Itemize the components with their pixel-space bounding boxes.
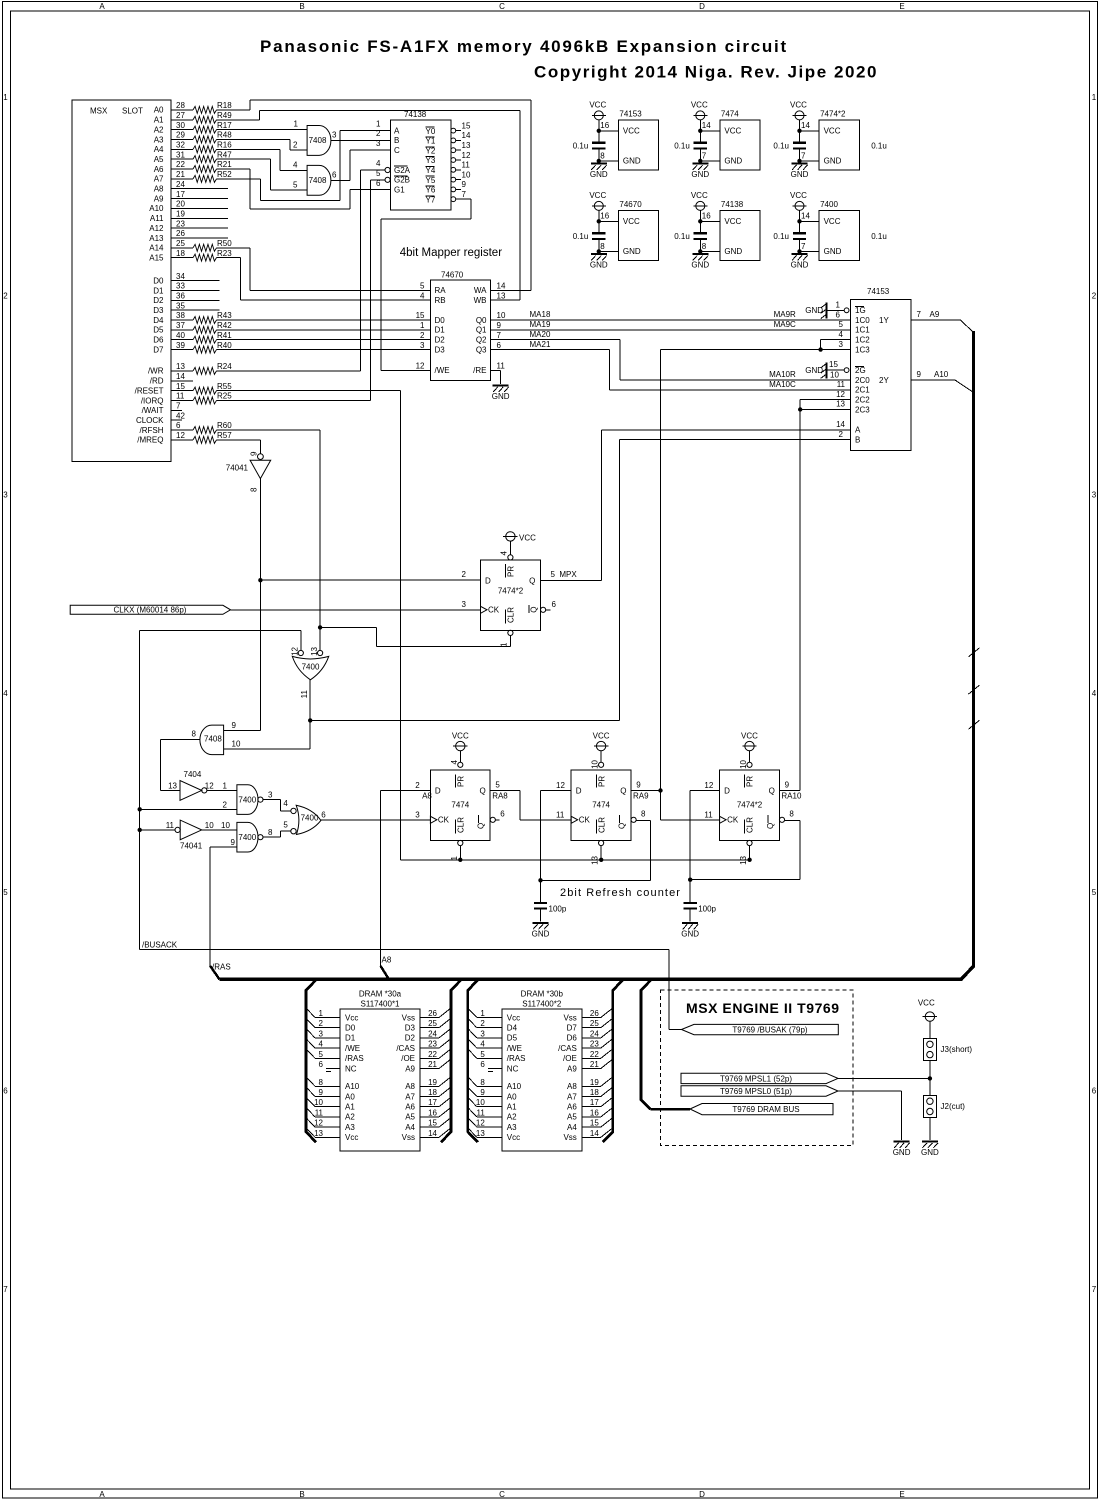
svg-text:CLOCK: CLOCK (136, 416, 164, 425)
svg-text:RA: RA (435, 286, 447, 295)
svg-text:6: 6 (497, 341, 502, 350)
svg-text:7408: 7408 (309, 176, 327, 185)
svg-text:GND: GND (691, 260, 709, 269)
svg-text:GND: GND (590, 170, 608, 179)
svg-text:Q: Q (530, 607, 539, 613)
svg-text:15: 15 (428, 1119, 437, 1128)
svg-text:VCC: VCC (593, 731, 610, 740)
svg-text:1: 1 (420, 321, 425, 330)
svg-text:VCC: VCC (589, 101, 606, 110)
svg-text:4: 4 (500, 550, 509, 555)
svg-text:Copyright 2014 Niga. Rev. Jipe: Copyright 2014 Niga. Rev. Jipe 2020 (534, 63, 878, 82)
svg-text:5: 5 (480, 1050, 485, 1059)
svg-text:D7: D7 (153, 345, 164, 354)
svg-text:8: 8 (319, 1078, 324, 1087)
svg-text:CLR: CLR (597, 817, 606, 833)
svg-text:15: 15 (829, 360, 838, 369)
svg-text:3: 3 (3, 490, 8, 499)
svg-text:74041: 74041 (226, 463, 249, 472)
svg-text:PR: PR (507, 566, 516, 577)
svg-text:6: 6 (552, 600, 557, 609)
svg-text:CLR: CLR (457, 817, 466, 833)
svg-text:R17: R17 (217, 121, 232, 130)
svg-text:2C1: 2C1 (855, 386, 870, 395)
svg-text:10: 10 (314, 1098, 323, 1107)
svg-text:13: 13 (836, 400, 845, 409)
svg-text:A: A (99, 2, 105, 11)
svg-text:Y1: Y1 (426, 137, 436, 146)
svg-text:CK: CK (438, 816, 450, 825)
svg-text:8: 8 (250, 487, 259, 492)
svg-text:3: 3 (376, 139, 381, 148)
svg-text:18: 18 (176, 249, 185, 258)
svg-text:R25: R25 (217, 392, 232, 401)
svg-text:24: 24 (590, 1029, 599, 1038)
svg-text:14: 14 (801, 212, 810, 221)
svg-text:B: B (299, 2, 304, 11)
svg-text:17: 17 (428, 1098, 437, 1107)
svg-text:A1: A1 (507, 1103, 517, 1112)
svg-text:0.1u: 0.1u (674, 142, 690, 151)
svg-text:D5: D5 (507, 1034, 518, 1043)
svg-text:R41: R41 (217, 331, 232, 340)
svg-text:MA21: MA21 (530, 340, 551, 349)
svg-text:16: 16 (600, 212, 609, 221)
svg-text:MA20: MA20 (530, 330, 551, 339)
svg-text:VCC: VCC (691, 101, 708, 110)
svg-text:13: 13 (314, 1129, 323, 1138)
svg-text:/OE: /OE (563, 1054, 577, 1063)
svg-text:Q: Q (769, 786, 775, 795)
svg-text:8: 8 (268, 828, 273, 837)
svg-text:0.1u: 0.1u (573, 142, 589, 151)
svg-text:GND: GND (824, 157, 842, 166)
svg-text:/WE: /WE (507, 1044, 522, 1053)
svg-text:A0: A0 (507, 1092, 517, 1101)
svg-text:3: 3 (839, 340, 844, 349)
svg-text:26: 26 (428, 1009, 437, 1018)
svg-text:Q2: Q2 (476, 336, 487, 345)
svg-text:Y4: Y4 (426, 166, 436, 175)
svg-text:A7: A7 (405, 1092, 415, 1101)
svg-text:8: 8 (600, 242, 605, 251)
svg-text:/IORQ: /IORQ (141, 396, 164, 405)
svg-text:9: 9 (250, 451, 259, 456)
svg-text:24: 24 (176, 180, 185, 189)
svg-text:A10: A10 (149, 204, 164, 213)
svg-text:11: 11 (300, 689, 309, 698)
svg-text:11: 11 (176, 392, 185, 401)
svg-text:6: 6 (480, 1060, 485, 1069)
svg-text:36: 36 (176, 292, 185, 301)
svg-text:D6: D6 (567, 1034, 578, 1043)
svg-text:17: 17 (590, 1098, 599, 1107)
svg-text:Y3: Y3 (426, 156, 436, 165)
svg-text:4: 4 (450, 759, 459, 764)
svg-text:E: E (899, 1490, 904, 1499)
svg-text:7: 7 (1092, 1285, 1097, 1294)
svg-text:4: 4 (839, 330, 844, 339)
svg-text:5: 5 (551, 570, 556, 579)
svg-text:A2: A2 (154, 125, 164, 134)
svg-text:19: 19 (428, 1078, 437, 1087)
svg-text:9: 9 (462, 180, 467, 189)
svg-text:D5: D5 (153, 326, 164, 335)
svg-text:19: 19 (590, 1078, 599, 1087)
svg-text:7: 7 (702, 151, 707, 160)
svg-text:G2A: G2A (394, 166, 411, 175)
svg-text:5: 5 (420, 282, 425, 291)
svg-text:D: D (435, 786, 441, 795)
svg-text:D0: D0 (345, 1024, 356, 1033)
svg-text:MSX ENGINE II T9769: MSX ENGINE II T9769 (686, 1000, 840, 1016)
svg-text:25: 25 (176, 239, 185, 248)
svg-text:S117400*2: S117400*2 (522, 1000, 562, 1009)
svg-text:13: 13 (176, 362, 185, 371)
svg-text:D3: D3 (435, 345, 446, 354)
svg-text:R18: R18 (217, 101, 232, 110)
svg-text:7474: 7474 (592, 800, 610, 809)
svg-text:14: 14 (590, 1129, 599, 1138)
svg-text:2C2: 2C2 (855, 396, 870, 405)
svg-text:A11: A11 (150, 214, 164, 223)
svg-text:20: 20 (176, 200, 185, 209)
svg-text:1Y: 1Y (879, 316, 889, 325)
svg-text:3: 3 (268, 790, 273, 799)
svg-text:1C1: 1C1 (855, 326, 870, 335)
svg-text:12: 12 (836, 390, 845, 399)
svg-text:B: B (299, 1490, 304, 1499)
svg-text:GND: GND (805, 306, 823, 315)
svg-text:/RE: /RE (473, 366, 486, 375)
svg-text:D4: D4 (153, 316, 164, 325)
svg-text:9: 9 (232, 721, 237, 730)
svg-text:13: 13 (476, 1129, 485, 1138)
svg-text:8: 8 (702, 242, 707, 251)
svg-text:CK: CK (488, 606, 500, 615)
svg-text:23: 23 (176, 219, 185, 228)
svg-text:A15: A15 (149, 253, 164, 262)
svg-text:/RAS: /RAS (212, 963, 231, 972)
svg-text:24: 24 (428, 1029, 437, 1038)
svg-text:12: 12 (176, 431, 185, 440)
svg-text:VCC: VCC (452, 731, 469, 740)
svg-text:74041: 74041 (180, 842, 203, 851)
svg-text:D2: D2 (153, 296, 164, 305)
svg-text:12: 12 (704, 781, 713, 790)
svg-text:2: 2 (462, 570, 467, 579)
svg-text:A7: A7 (567, 1092, 577, 1101)
svg-text:7474*2: 7474*2 (737, 800, 763, 809)
svg-text:MA9C: MA9C (774, 320, 796, 329)
svg-text:6: 6 (1092, 1087, 1097, 1096)
svg-text:7: 7 (3, 1285, 8, 1294)
svg-text:3: 3 (332, 130, 337, 139)
svg-text:9: 9 (917, 370, 922, 379)
svg-text:T9769 MPSL1 (52p): T9769 MPSL1 (52p) (720, 1074, 792, 1083)
svg-text:MA18: MA18 (530, 310, 551, 319)
svg-text:8: 8 (192, 730, 197, 739)
svg-text:A10: A10 (345, 1082, 360, 1091)
svg-text:/RAS: /RAS (507, 1054, 526, 1063)
svg-text:2C3: 2C3 (855, 405, 870, 414)
svg-text:/CAS: /CAS (396, 1044, 415, 1053)
svg-text:11: 11 (315, 1108, 324, 1117)
svg-text:R16: R16 (217, 141, 232, 150)
svg-text:GND: GND (623, 247, 641, 256)
svg-text:A: A (394, 126, 400, 135)
svg-text:A14: A14 (149, 244, 164, 253)
svg-text:R49: R49 (217, 111, 232, 120)
svg-text:8: 8 (480, 1078, 485, 1087)
svg-text:26: 26 (176, 229, 185, 238)
svg-text:21: 21 (176, 170, 185, 179)
svg-text:6: 6 (500, 810, 505, 819)
svg-text:CLR: CLR (746, 817, 755, 833)
svg-text:10: 10 (221, 821, 230, 830)
svg-text:13: 13 (462, 141, 471, 150)
svg-text:0.1u: 0.1u (871, 142, 887, 151)
svg-text:Vss: Vss (563, 1133, 576, 1142)
svg-text:21: 21 (590, 1060, 599, 1069)
svg-text:A9: A9 (405, 1064, 415, 1073)
svg-text:37: 37 (176, 321, 185, 330)
svg-text:35: 35 (176, 301, 185, 310)
svg-text:3: 3 (462, 600, 467, 609)
svg-text:4: 4 (480, 1040, 485, 1049)
svg-text:8: 8 (789, 810, 794, 819)
svg-text:MA10R: MA10R (769, 370, 796, 379)
svg-text:CLKX (M60014 86p): CLKX (M60014 86p) (114, 605, 187, 614)
svg-text:A5: A5 (567, 1113, 577, 1122)
svg-text:10: 10 (830, 370, 839, 379)
svg-text:9: 9 (231, 838, 236, 847)
svg-text:GND: GND (724, 157, 742, 166)
svg-text:14: 14 (836, 420, 845, 429)
svg-text:10: 10 (739, 759, 748, 768)
svg-text:7408: 7408 (204, 734, 222, 743)
svg-text:31: 31 (176, 150, 185, 159)
svg-text:12: 12 (291, 646, 300, 655)
svg-text:28: 28 (176, 101, 185, 110)
svg-text:74138: 74138 (404, 110, 427, 119)
svg-text:10: 10 (232, 739, 241, 748)
svg-text:A8: A8 (567, 1082, 577, 1091)
svg-text:VCC: VCC (724, 127, 741, 136)
svg-text:R60: R60 (217, 421, 232, 430)
svg-text:R52: R52 (217, 170, 232, 179)
svg-text:D: D (724, 786, 730, 795)
svg-text:18: 18 (428, 1088, 437, 1097)
svg-text:7400: 7400 (820, 200, 838, 209)
svg-text:A0: A0 (154, 106, 164, 115)
svg-text:26: 26 (590, 1009, 599, 1018)
svg-text:2: 2 (420, 331, 425, 340)
svg-text:D: D (576, 786, 582, 795)
svg-text:5: 5 (839, 320, 844, 329)
svg-text:13: 13 (168, 781, 177, 790)
svg-text:D: D (485, 576, 491, 585)
svg-text:3: 3 (420, 341, 425, 350)
svg-text:11: 11 (837, 380, 846, 389)
svg-text:A5: A5 (154, 155, 164, 164)
svg-text:GND: GND (921, 1148, 939, 1157)
svg-text:4: 4 (420, 291, 425, 300)
svg-text:D2: D2 (405, 1034, 416, 1043)
svg-text:12: 12 (416, 362, 425, 371)
svg-text:74153: 74153 (867, 287, 890, 296)
svg-text:19: 19 (176, 209, 185, 218)
svg-text:VCC: VCC (741, 731, 758, 740)
svg-text:7474: 7474 (721, 110, 739, 119)
svg-text:5: 5 (319, 1050, 324, 1059)
svg-text:7400: 7400 (238, 833, 256, 842)
svg-text:25: 25 (428, 1019, 437, 1028)
svg-text:2C0: 2C0 (855, 376, 870, 385)
svg-text:J3(short): J3(short) (941, 1045, 973, 1054)
svg-text:VCC: VCC (790, 101, 807, 110)
svg-text:74670: 74670 (441, 271, 464, 280)
svg-text:0.1u: 0.1u (773, 142, 789, 151)
svg-text:A12: A12 (149, 224, 164, 233)
svg-text:9: 9 (497, 321, 502, 330)
svg-text:18: 18 (590, 1088, 599, 1097)
svg-text:GND: GND (724, 247, 742, 256)
svg-text:32: 32 (176, 141, 185, 150)
svg-text:1: 1 (376, 119, 381, 128)
svg-text:2bit Refresh counter: 2bit Refresh counter (560, 887, 681, 899)
svg-text:A1: A1 (345, 1103, 355, 1112)
svg-text:GND: GND (623, 157, 641, 166)
svg-text:/CAS: /CAS (558, 1044, 577, 1053)
svg-text:D: D (699, 2, 705, 11)
svg-text:WB: WB (474, 296, 487, 305)
svg-text:14: 14 (462, 131, 471, 140)
svg-text:11: 11 (166, 821, 175, 830)
svg-text:17: 17 (176, 190, 185, 199)
svg-text:8: 8 (641, 810, 646, 819)
svg-text:A6: A6 (405, 1103, 415, 1112)
svg-text:16: 16 (702, 212, 711, 221)
svg-text:1: 1 (3, 93, 8, 102)
svg-text:A: A (855, 426, 861, 435)
svg-text:WA: WA (474, 286, 487, 295)
svg-text:7474: 7474 (451, 800, 469, 809)
svg-text:/RD: /RD (150, 377, 164, 386)
svg-text:4: 4 (1092, 689, 1097, 698)
svg-text:11: 11 (556, 811, 565, 820)
svg-text:Y7: Y7 (426, 195, 436, 204)
svg-text:Y2: Y2 (426, 146, 436, 155)
svg-text:74138: 74138 (721, 200, 744, 209)
svg-text:14: 14 (702, 121, 711, 130)
svg-text:74670: 74670 (619, 200, 642, 209)
svg-text:4: 4 (283, 799, 288, 808)
svg-text:DRAM *30b: DRAM *30b (521, 989, 564, 998)
svg-text:D1: D1 (153, 286, 164, 295)
svg-text:S117400*1: S117400*1 (361, 1000, 401, 1009)
svg-text:2: 2 (480, 1019, 485, 1028)
svg-text:4bit Mapper register: 4bit Mapper register (400, 247, 502, 259)
svg-text:R21: R21 (217, 160, 232, 169)
svg-text:11: 11 (476, 1108, 485, 1117)
svg-text:10: 10 (497, 311, 506, 320)
svg-text:7474*2: 7474*2 (820, 110, 846, 119)
svg-text:6: 6 (836, 311, 841, 320)
svg-text:/WAIT: /WAIT (142, 406, 164, 415)
svg-text:2Y: 2Y (879, 376, 889, 385)
svg-text:4: 4 (376, 159, 381, 168)
svg-text:R50: R50 (217, 239, 232, 248)
svg-text:12: 12 (476, 1119, 485, 1128)
svg-text:VCC: VCC (824, 127, 841, 136)
svg-text:/WR: /WR (148, 367, 164, 376)
svg-text:T9769 /BUSAK (79p): T9769 /BUSAK (79p) (732, 1026, 807, 1035)
svg-text:12: 12 (462, 151, 471, 160)
svg-text:7: 7 (176, 402, 181, 411)
svg-text:7: 7 (497, 331, 502, 340)
svg-text:C: C (499, 2, 505, 11)
svg-text:7: 7 (801, 242, 806, 251)
svg-text:6: 6 (3, 1087, 8, 1096)
svg-text:3: 3 (319, 1029, 324, 1038)
svg-text:Q0: Q0 (476, 316, 487, 325)
svg-text:GND: GND (532, 929, 550, 938)
svg-text:14: 14 (801, 121, 810, 130)
svg-text:8: 8 (600, 151, 605, 160)
svg-text:VCC: VCC (623, 127, 640, 136)
svg-text:VCC: VCC (790, 191, 807, 200)
svg-text:D1: D1 (435, 326, 446, 335)
svg-text:7408: 7408 (309, 136, 327, 145)
svg-text:29: 29 (176, 131, 185, 140)
svg-text:GND: GND (492, 392, 510, 401)
svg-text:40: 40 (176, 331, 185, 340)
svg-text:2: 2 (1092, 292, 1097, 301)
svg-text:/RESET: /RESET (135, 386, 164, 395)
svg-text:0.1u: 0.1u (773, 232, 789, 241)
svg-text:GND: GND (893, 1148, 911, 1157)
svg-text:D3: D3 (153, 306, 164, 315)
svg-text:Vcc: Vcc (507, 1133, 520, 1142)
svg-text:/OE: /OE (401, 1054, 415, 1063)
svg-text:/WE: /WE (345, 1044, 360, 1053)
svg-text:GND: GND (824, 247, 842, 256)
svg-text:7400: 7400 (301, 814, 319, 823)
svg-text:13: 13 (497, 291, 506, 300)
svg-text:A6: A6 (154, 165, 164, 174)
svg-text:GND: GND (681, 929, 699, 938)
svg-text:CLR: CLR (507, 607, 516, 623)
svg-text:D0: D0 (435, 316, 446, 325)
svg-text:2G: 2G (855, 366, 866, 375)
svg-text:0.1u: 0.1u (674, 232, 690, 241)
svg-text:A8: A8 (154, 185, 164, 194)
svg-text:B: B (394, 136, 399, 145)
svg-text:22: 22 (590, 1050, 599, 1059)
svg-text:R42: R42 (217, 321, 232, 330)
svg-text:3: 3 (415, 811, 420, 820)
svg-text:A5: A5 (405, 1113, 415, 1122)
svg-text:A6: A6 (567, 1103, 577, 1112)
svg-text:/WE: /WE (435, 366, 450, 375)
svg-text:Vcc: Vcc (507, 1013, 520, 1022)
svg-text:R43: R43 (217, 311, 232, 320)
svg-text:14: 14 (176, 372, 185, 381)
svg-text:2: 2 (293, 141, 298, 150)
svg-text:7474*2: 7474*2 (498, 587, 524, 596)
svg-text:2: 2 (223, 800, 228, 809)
